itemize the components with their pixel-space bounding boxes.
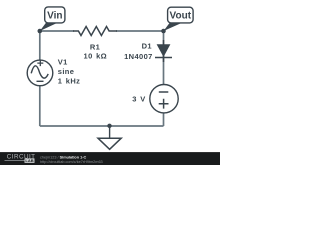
- svg-text:1N4007: 1N4007: [124, 52, 153, 61]
- node Vout dot: [161, 29, 166, 34]
- svg-text:sine: sine: [58, 67, 75, 76]
- wire bottom rail: [40, 125, 164, 127]
- flag Vin pointer: [40, 23, 58, 31]
- svg-text:chejm123 / Simulation 1-C: chejm123 / Simulation 1-C: [40, 155, 86, 159]
- svg-text:LAB: LAB: [25, 158, 33, 163]
- svg-text:R1: R1: [90, 43, 100, 52]
- wire right vertical from Vout node down to bottom rail: [163, 31, 165, 126]
- node Vin dot: [38, 29, 43, 34]
- node junction dot at ground: [107, 124, 111, 128]
- svg-text:Vin: Vin: [47, 11, 62, 22]
- voltage source V1 (sine): [27, 60, 53, 86]
- watermark CircuitLab logo: [5, 154, 36, 164]
- svg-text:3 V: 3 V: [132, 94, 145, 103]
- flag Vout pointer: [164, 23, 182, 31]
- flag Vin box: [45, 7, 65, 23]
- flag Vout box: [168, 7, 194, 23]
- svg-text:http://circuitlab.com/c/ke7rH9: http://circuitlab.com/c/ke7rH9tm2m63: [40, 160, 103, 164]
- wire top left from Vin node to resistor: [40, 30, 74, 32]
- wire left vertical from Vin node down to bottom rail: [39, 31, 41, 126]
- diode D1: [155, 40, 172, 62]
- svg-text:D1: D1: [142, 42, 152, 51]
- wire top right from resistor to Vout node: [116, 30, 164, 32]
- svg-text:1 kHz: 1 kHz: [58, 77, 81, 86]
- svg-text:10 kΩ: 10 kΩ: [84, 51, 108, 60]
- voltage source V2 3V battery: [150, 85, 178, 113]
- ground: [98, 126, 121, 150]
- resistor R1: [73, 27, 117, 36]
- svg-text:V1: V1: [58, 58, 68, 67]
- watermark bar: [0, 152, 220, 165]
- svg-text:Vout: Vout: [170, 11, 192, 22]
